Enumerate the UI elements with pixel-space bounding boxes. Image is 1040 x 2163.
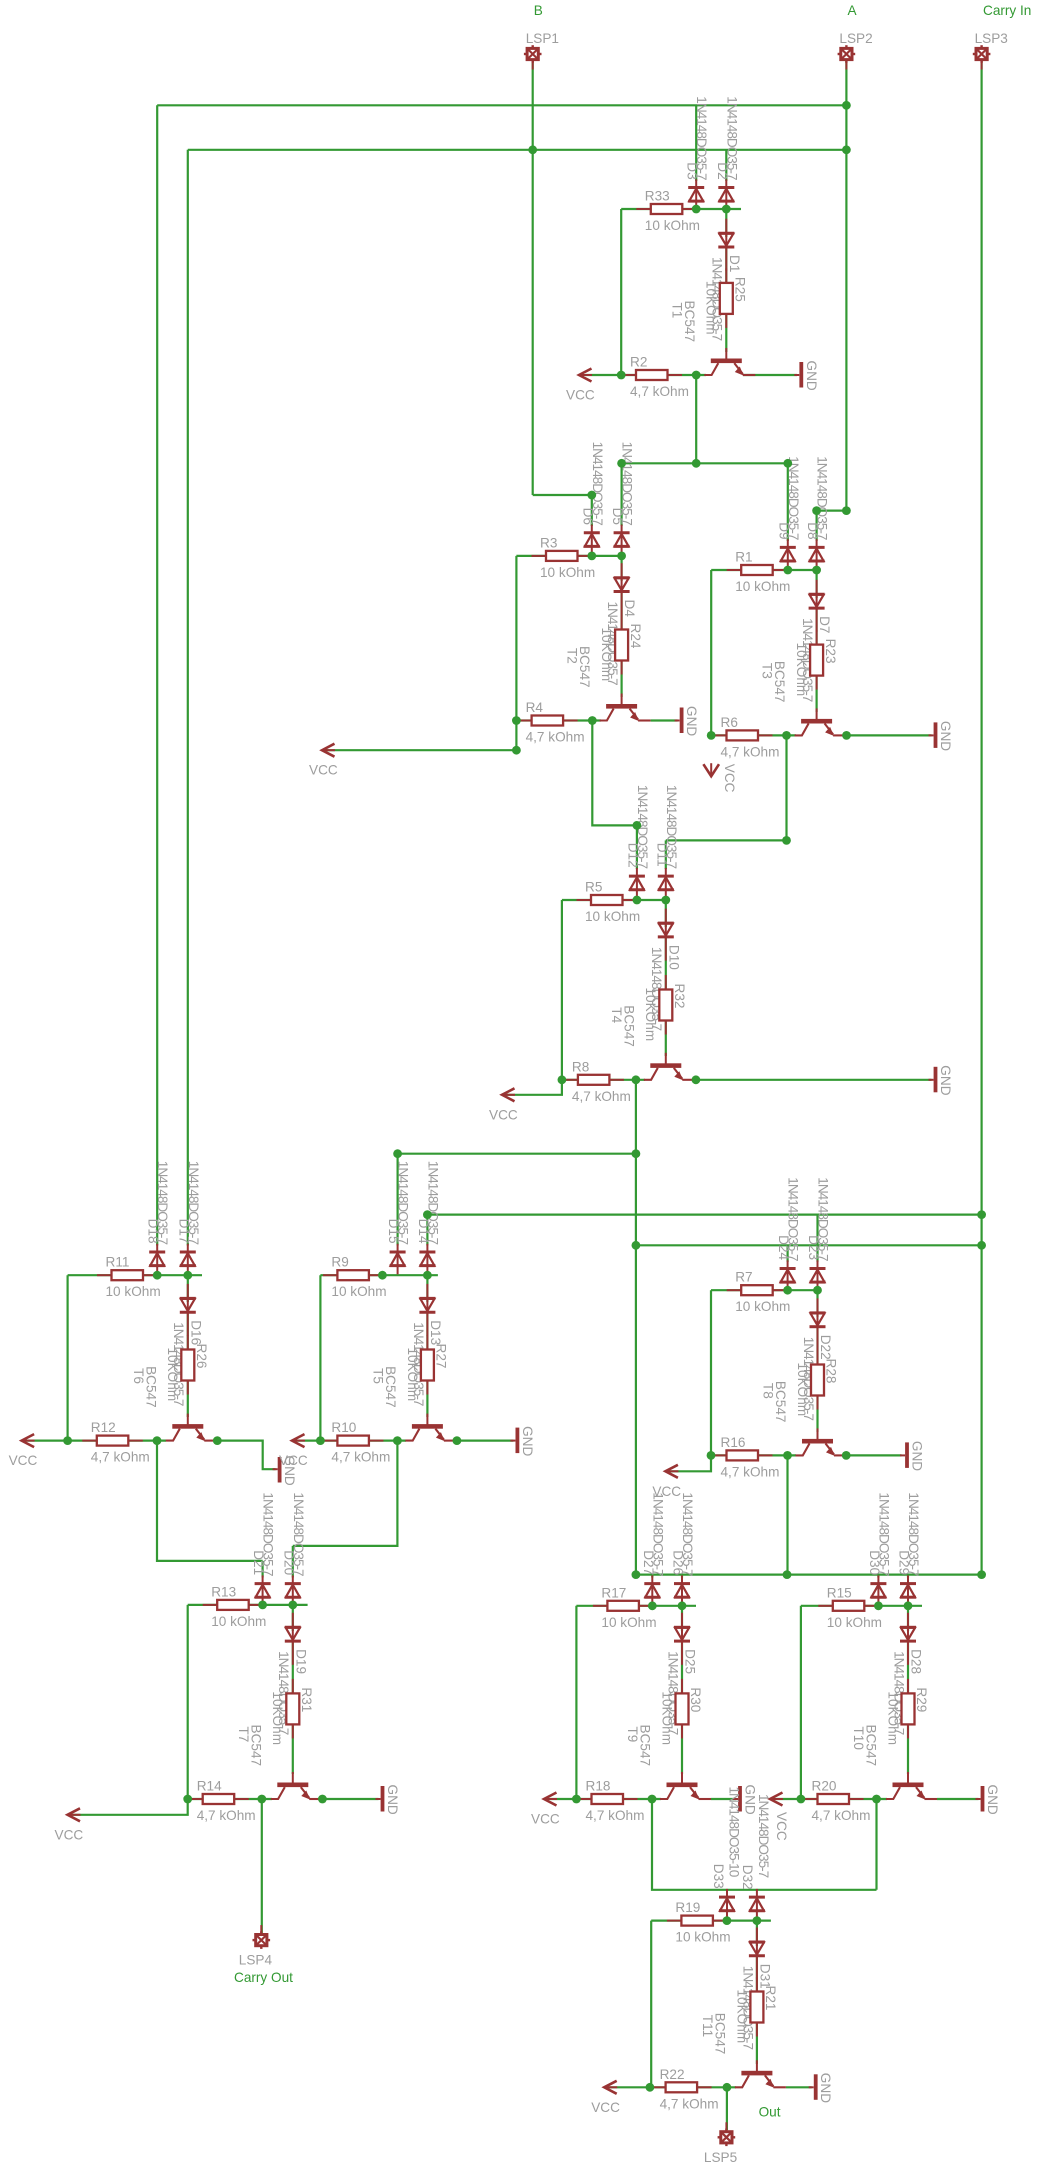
svg-text:D22: D22 — [818, 1335, 833, 1360]
svg-text:4,7 kOhm: 4,7 kOhm — [331, 1450, 390, 1465]
junction to D5 — [617, 459, 626, 468]
wire down to D12 — [636, 825, 638, 869]
svg-text:10KOhm: 10KOhm — [704, 281, 719, 335]
wire R1 to VCC rail T3 — [710, 570, 712, 735]
wire node8 to D19 — [292, 1605, 294, 1631]
svg-text:D32: D32 — [740, 1865, 755, 1890]
svg-text:1N4148DO35-7: 1N4148DO35-7 — [786, 456, 801, 540]
wire D25 to R30 — [681, 1641, 683, 1697]
wire down to D21 — [262, 1561, 264, 1578]
junction sum node / carry bus — [632, 1570, 641, 1579]
wire node5 to D16 — [187, 1275, 189, 1302]
ground GND T7 — [376, 1786, 385, 1812]
resistor R19 10 kOhm — [667, 1916, 728, 1926]
diode D16 — [180, 1284, 196, 1336]
wire T1 base node down — [695, 375, 697, 463]
diode D30 — [870, 1575, 886, 1606]
wire R20 to T10 base — [849, 1798, 887, 1800]
wire to D30 — [877, 1575, 879, 1578]
svg-text:1N4148DO35-7: 1N4148DO35-7 — [756, 1794, 771, 1878]
svg-text:R14: R14 — [197, 1779, 222, 1794]
svg-text:R30: R30 — [688, 1687, 703, 1712]
junction R14 / VCC rail — [183, 1795, 192, 1804]
resistor R1 10 kOhm — [727, 565, 788, 575]
wire R17 to VCC rail T9 — [575, 1606, 577, 1799]
wire gate4 input node — [562, 899, 666, 901]
junction T7 base node — [257, 1795, 266, 1804]
wire A to D8 — [817, 511, 847, 541]
diode D32 — [749, 1889, 765, 1920]
svg-text:1N4148DO35-7: 1N4148DO35-7 — [186, 1161, 201, 1245]
diode D27 — [644, 1575, 660, 1606]
svg-text:4,7 kOhm: 4,7 kOhm — [572, 1089, 631, 1104]
connector LSP1 (B) — [524, 45, 542, 69]
wire gate1 input node — [621, 208, 741, 210]
junction Carry In / carry bus — [977, 1570, 986, 1579]
svg-text:T4: T4 — [609, 1007, 624, 1023]
svg-text:A: A — [848, 3, 858, 18]
wire to D27 — [651, 1575, 653, 1578]
wire node1 to D1 — [725, 209, 727, 237]
svg-text:D1: D1 — [727, 255, 742, 272]
junction D17 / node5 — [183, 1271, 192, 1280]
wire node9 to D25 — [681, 1606, 683, 1631]
svg-text:D28: D28 — [909, 1649, 924, 1674]
junction R10 / VCC rail — [316, 1436, 325, 1445]
wire R28 to T8 collector — [816, 1396, 818, 1433]
junction D12 / node4 — [633, 896, 642, 905]
junction D20 / node8 — [288, 1601, 297, 1610]
diode D5 — [614, 525, 630, 556]
wire R11 to VCC rail T6 — [66, 1275, 68, 1440]
wire node4 to D10 — [665, 900, 667, 927]
svg-text:10 kOhm: 10 kOhm — [331, 1284, 386, 1299]
transistor T4 BC547 — [644, 1053, 695, 1081]
wire VCC rail to R14 — [188, 1798, 207, 1800]
wire T3 base node down to D11 — [666, 735, 787, 840]
junction D24 / node7 — [783, 1286, 792, 1295]
junction T3 base node — [782, 731, 791, 740]
svg-text:10KOhm: 10KOhm — [599, 628, 614, 682]
svg-text:GND: GND — [910, 1441, 925, 1471]
svg-text:D13: D13 — [428, 1320, 443, 1345]
svg-text:R19: R19 — [675, 1900, 700, 1915]
svg-text:VCC: VCC — [531, 1812, 560, 1827]
junction Carry In / D14 branch — [977, 1210, 986, 1219]
diode D18 — [149, 1244, 165, 1275]
junction R22 / VCC rail — [646, 2083, 655, 2092]
svg-text:T6: T6 — [131, 1368, 146, 1384]
junction T10 base node — [872, 1795, 881, 1804]
svg-text:R2: R2 — [630, 355, 647, 370]
svg-text:Carry Out: Carry Out — [234, 1970, 293, 1985]
junction A wire corner — [842, 506, 851, 515]
supply VCC T8 — [665, 1465, 678, 1478]
junction A bus / LSP2 — [842, 101, 851, 110]
svg-text:T8: T8 — [761, 1383, 776, 1399]
wire to D32 — [756, 1890, 758, 1891]
junction D3 / node1 — [692, 205, 701, 214]
svg-text:B: B — [534, 3, 543, 18]
wire VCC to R12 — [26, 1439, 101, 1441]
transistor T9 BC547 — [660, 1772, 711, 1800]
diode D6 — [584, 525, 600, 556]
wire VCC rail to R8 — [562, 1079, 582, 1081]
wire to VCC T8 — [669, 1455, 711, 1471]
resistor R30 10KOhm — [676, 1679, 689, 1739]
wire gate11 input node — [651, 1919, 771, 1921]
svg-text:T11: T11 — [700, 2015, 715, 2037]
svg-text:10 kOhm: 10 kOhm — [211, 1614, 266, 1629]
svg-text:VCC: VCC — [9, 1453, 38, 1468]
wire gate7 input node — [711, 1289, 818, 1291]
wire gate5 input node — [68, 1274, 202, 1276]
svg-text:GND: GND — [938, 721, 953, 751]
svg-text:VCC: VCC — [774, 1812, 789, 1841]
resistor R26 10KOhm — [181, 1335, 194, 1395]
ground GND T6 — [273, 1457, 282, 1483]
transistor T10 BC547 — [886, 1772, 937, 1800]
resistor R7 10 kOhm — [727, 1285, 788, 1295]
ground GND T5 — [510, 1428, 519, 1454]
wire D10 to R32 — [665, 937, 667, 993]
junction R4 / VCC rail — [512, 716, 521, 725]
diode D20 — [285, 1575, 301, 1606]
svg-text:T1: T1 — [669, 303, 684, 319]
wire D31 to R21 — [756, 1956, 758, 1995]
wire node3 to D7 — [815, 570, 817, 598]
svg-text:LSP2: LSP2 — [839, 31, 872, 46]
wire R21 to T11 collector — [756, 2023, 758, 2065]
wire down to D5 — [620, 463, 622, 526]
transistor T6 BC547 — [166, 1414, 217, 1442]
junction R20 / VCC rail — [797, 1795, 806, 1804]
wire A bus horizontal — [157, 104, 846, 106]
supply VCC T10 — [770, 1793, 783, 1806]
diode D23 — [810, 1260, 826, 1291]
wire D13 to R27 — [426, 1312, 428, 1353]
svg-text:10KOhm: 10KOhm — [165, 1348, 180, 1402]
resistor R25 10KOhm — [720, 268, 733, 328]
diode D3 — [688, 179, 704, 210]
junction D15 branch corner — [393, 1149, 402, 1158]
resistor R24 10KOhm — [615, 615, 628, 675]
svg-text:R1: R1 — [735, 550, 752, 565]
wire R24 to T2 collector — [620, 661, 622, 698]
svg-text:VCC: VCC — [279, 1453, 308, 1468]
svg-text:R31: R31 — [299, 1687, 314, 1712]
wire D28 to R29 — [907, 1641, 909, 1697]
svg-text:R27: R27 — [434, 1344, 449, 1369]
junction T5 base node — [393, 1436, 402, 1445]
svg-text:T2: T2 — [565, 648, 580, 664]
junction A wire / D8 — [812, 506, 821, 515]
resistor R23 10KOhm — [810, 630, 823, 690]
svg-text:10KOhm: 10KOhm — [270, 1691, 285, 1745]
svg-text:D25: D25 — [683, 1649, 698, 1674]
junction T4 emitter — [692, 1075, 701, 1084]
wire down to D14 — [426, 1215, 428, 1246]
resistor R29 10KOhm — [902, 1679, 915, 1739]
svg-text:T3: T3 — [760, 663, 775, 679]
ground GND T3 — [929, 722, 938, 748]
svg-text:10 kOhm: 10 kOhm — [735, 579, 790, 594]
wire carry gates input bus — [636, 1573, 982, 1575]
wire VCC to R20 — [774, 1798, 822, 1800]
junction R12 / VCC rail — [63, 1436, 72, 1445]
svg-text:R22: R22 — [660, 2067, 685, 2082]
svg-text:4,7 kOhm: 4,7 kOhm — [721, 1464, 780, 1479]
svg-text:1N4148DO35-7: 1N4148DO35-7 — [724, 96, 739, 180]
wire T5 base node down — [293, 1441, 398, 1546]
wire T3 emitter to GND — [846, 734, 932, 736]
svg-text:10 kOhm: 10 kOhm — [106, 1284, 161, 1299]
wire gate6 input node — [320, 1274, 438, 1276]
transistor T3 BC547 — [795, 708, 846, 736]
svg-text:R17: R17 — [601, 1585, 626, 1600]
wire R15 to VCC rail T10 — [800, 1606, 802, 1799]
resistor R14 4,7 kOhm — [188, 1794, 249, 1804]
svg-text:1N4148DO35-7: 1N4148DO35-7 — [906, 1492, 921, 1576]
svg-text:4,7 kOhm: 4,7 kOhm — [721, 744, 780, 759]
connector LSP3 (Carry In) — [973, 45, 991, 69]
junction T4 base node — [632, 1075, 641, 1084]
wire R23 to T3 collector — [815, 676, 817, 712]
svg-text:T5: T5 — [370, 1368, 385, 1384]
resistor R21 10KOhm — [750, 1977, 763, 2037]
svg-text:VCC: VCC — [55, 1827, 84, 1842]
wire R6 to T3 base — [758, 734, 796, 736]
wire T9 emitter to GND — [711, 1798, 736, 1800]
svg-text:R16: R16 — [721, 1435, 746, 1450]
svg-text:R11: R11 — [106, 1255, 130, 1270]
resistor R9 10 kOhm — [323, 1270, 384, 1280]
ground GND T10 — [976, 1786, 985, 1812]
svg-text:1N4148DO35-7: 1N4148DO35-7 — [650, 1492, 665, 1576]
wire VCC rail to R4 — [516, 719, 536, 721]
diode D1 — [718, 219, 734, 271]
svg-text:GND: GND — [804, 361, 819, 391]
junction T2 base node — [588, 716, 597, 725]
junction corner D11 — [782, 836, 791, 845]
svg-text:R12: R12 — [91, 1420, 116, 1435]
transistor T5 BC547 — [405, 1414, 456, 1442]
svg-text:Carry In: Carry In — [983, 3, 1031, 18]
svg-text:R8: R8 — [572, 1059, 589, 1074]
junction D27 / node9 — [648, 1601, 657, 1610]
svg-text:GND: GND — [520, 1426, 535, 1456]
diode D29 — [900, 1575, 916, 1606]
svg-text:1N4148DO35-7: 1N4148DO35-7 — [680, 1492, 695, 1576]
wire branch to D23 — [816, 1215, 818, 1262]
wire T1 emitter to GND — [743, 374, 797, 376]
resistor R31 10KOhm — [286, 1679, 299, 1739]
resistor R10 4,7 kOhm — [323, 1436, 384, 1446]
junction D30 / node10 — [874, 1601, 883, 1610]
diode D17 — [180, 1244, 196, 1275]
svg-text:1N4148DO35-7: 1N4148DO35-7 — [291, 1492, 306, 1576]
junction Carry In / D24 branch — [977, 1241, 986, 1250]
diode D9 — [780, 539, 796, 570]
resistor R16 4,7 kOhm — [712, 1450, 773, 1460]
svg-text:R25: R25 — [733, 277, 748, 302]
svg-text:10KOhm: 10KOhm — [794, 643, 809, 697]
diode D19 — [285, 1613, 301, 1665]
wire R18 to T9 base — [623, 1798, 661, 1800]
resistor R28 10KOhm — [811, 1350, 824, 1410]
wire T6 emitter to GND — [217, 1441, 276, 1470]
svg-text:R32: R32 — [672, 984, 687, 1009]
svg-text:1N4148DO35-7: 1N4148DO35-7 — [590, 442, 605, 526]
svg-text:10 kOhm: 10 kOhm — [601, 1615, 656, 1630]
svg-text:1N4148DO35-7: 1N4148DO35-7 — [815, 456, 830, 540]
junction T11 base node — [723, 2083, 732, 2092]
diode D10 — [658, 909, 674, 961]
resistor R32 10KOhm — [659, 975, 672, 1035]
ground GND T2 — [675, 708, 684, 734]
wire T4 base node down long — [635, 1080, 637, 1575]
wire D16 to R26 — [187, 1312, 189, 1353]
wire D14 branch to Carry In — [427, 1213, 981, 1215]
wire R33 to VCC rail T1 — [620, 209, 622, 375]
wire to D26 — [681, 1575, 683, 1578]
wire T8 base node down — [786, 1455, 788, 1574]
junction T6 base node — [153, 1436, 162, 1445]
transistor T8 BC547 — [796, 1428, 847, 1456]
wire VCC to R2 — [585, 374, 641, 376]
svg-text:R15: R15 — [827, 1585, 852, 1600]
svg-text:1N4148DO35-7: 1N4148DO35-7 — [425, 1161, 440, 1245]
supply VCC T9 — [544, 1793, 557, 1806]
svg-text:R28: R28 — [824, 1359, 839, 1384]
junction B wire / D6 — [587, 491, 596, 500]
junction B bus end — [842, 145, 851, 154]
svg-text:1N4148DO35-7: 1N4148DO35-7 — [664, 785, 679, 869]
transistor T1 BC547 — [704, 348, 755, 376]
svg-text:10KOhm: 10KOhm — [405, 1348, 420, 1402]
svg-text:1N4148DO35-7: 1N4148DO35-7 — [261, 1492, 276, 1576]
svg-text:LSP1: LSP1 — [526, 31, 559, 46]
wire branch to D24 and Carry In — [636, 1244, 982, 1246]
svg-text:GND: GND — [684, 706, 699, 736]
resistor R17 10 kOhm — [593, 1601, 654, 1611]
junction R6 / VCC rail — [707, 731, 716, 740]
wire to VCC T4 — [506, 1080, 562, 1095]
junction R8 / VCC rail — [558, 1075, 567, 1084]
wire R2 to T1 base — [668, 374, 707, 376]
svg-text:R29: R29 — [914, 1687, 929, 1712]
wire R4 to T2 base — [563, 719, 601, 721]
wire gate8 input node — [188, 1604, 308, 1606]
svg-text:LSP4: LSP4 — [239, 1953, 273, 1968]
wire R9 to VCC rail T5 — [319, 1275, 321, 1440]
wire VCC to R22 — [608, 2086, 670, 2088]
resistor R11 10 kOhm — [97, 1270, 158, 1280]
wire to VCC T2 — [326, 721, 516, 751]
svg-text:VCC: VCC — [722, 764, 737, 793]
svg-text:1N4148DO35-7: 1N4148DO35-7 — [816, 1177, 831, 1261]
svg-text:10 kOhm: 10 kOhm — [735, 1299, 790, 1314]
svg-text:R20: R20 — [812, 1779, 837, 1794]
svg-text:1N4148DO35-7: 1N4148DO35-7 — [786, 1177, 801, 1261]
junction D32 / node11 — [753, 1916, 762, 1925]
svg-text:T10: T10 — [851, 1727, 866, 1751]
resistor R22 4,7 kOhm — [651, 2082, 712, 2092]
svg-text:LSP5: LSP5 — [704, 2150, 737, 2163]
svg-text:T9: T9 — [625, 1727, 640, 1743]
svg-text:10KOhm: 10KOhm — [795, 1363, 810, 1417]
svg-text:D4: D4 — [622, 600, 637, 618]
junction D6 / node2 — [587, 552, 596, 561]
svg-text:R18: R18 — [586, 1779, 611, 1794]
svg-text:1N4148DO35-7: 1N4148DO35-7 — [396, 1161, 411, 1245]
diode D14 — [419, 1244, 435, 1275]
wire T11 base node to LSP5 — [726, 2087, 728, 2130]
junction D14 branch — [423, 1210, 432, 1219]
wire A bus left vertical down to D18 — [156, 105, 158, 1245]
junction R18 / VCC rail — [572, 1795, 581, 1804]
junction VCC wire corner — [512, 746, 521, 755]
supply VCC T6 — [22, 1434, 35, 1447]
junction R2 / VCC rail — [617, 371, 626, 380]
junction sum node / D24 branch — [632, 1241, 641, 1250]
svg-text:R7: R7 — [735, 1270, 752, 1285]
wire down to D9 — [787, 463, 789, 541]
wire down to D20 — [292, 1546, 294, 1578]
junction D18 / node5 — [153, 1271, 162, 1280]
svg-text:10KOhm: 10KOhm — [734, 1990, 749, 2044]
svg-text:10 kOhm: 10 kOhm — [827, 1615, 882, 1630]
diode D11 — [658, 868, 674, 899]
wire R29 to T10 collector — [907, 1724, 909, 1774]
resistor R33 10 kOhm — [636, 204, 697, 214]
svg-text:R13: R13 — [211, 1584, 236, 1599]
wire node11 to D31 — [756, 1921, 758, 1946]
svg-text:D33: D33 — [711, 1864, 726, 1889]
wire LSP3 Carry In vertical — [980, 61, 982, 1575]
junction T6 emitter — [213, 1436, 222, 1445]
svg-text:D10: D10 — [666, 945, 681, 970]
diode D26 — [674, 1575, 690, 1606]
svg-text:10KOhm: 10KOhm — [659, 1691, 674, 1745]
junction to D9 — [783, 459, 792, 468]
junction T8 base node — [783, 1451, 792, 1460]
wire node1 out horizontal — [622, 462, 788, 464]
svg-text:1N4148DO35-7: 1N4148DO35-7 — [694, 96, 709, 180]
junction sum node / D15 branch — [632, 1149, 641, 1158]
wire A bus to D3 — [695, 105, 697, 181]
wire T6 base node down to D21 — [157, 1441, 263, 1561]
connector LSP5 (Out) — [718, 2122, 736, 2146]
supply VCC T11 — [604, 2081, 617, 2094]
diode D28 — [900, 1613, 916, 1665]
ground GND T4 — [929, 1067, 938, 1093]
svg-text:R23: R23 — [823, 639, 838, 664]
junction T1 out — [692, 459, 701, 468]
supply VCC T3 — [703, 763, 719, 776]
resistor R2 4,7 kOhm — [622, 370, 683, 380]
wire R3 to VCC rail T2 — [515, 556, 517, 721]
junction D33 / node11 — [723, 1916, 732, 1925]
wire D19 to R31 — [292, 1641, 294, 1697]
svg-text:GND: GND — [938, 1065, 953, 1095]
wire VCC to R10 — [296, 1439, 342, 1441]
svg-text:R3: R3 — [540, 535, 557, 550]
junction D21 / node8 — [258, 1601, 267, 1610]
svg-text:10 kOhm: 10 kOhm — [675, 1930, 730, 1945]
connector LSP4 (Carry Out) — [253, 1925, 271, 1949]
diode D15 — [390, 1244, 406, 1275]
